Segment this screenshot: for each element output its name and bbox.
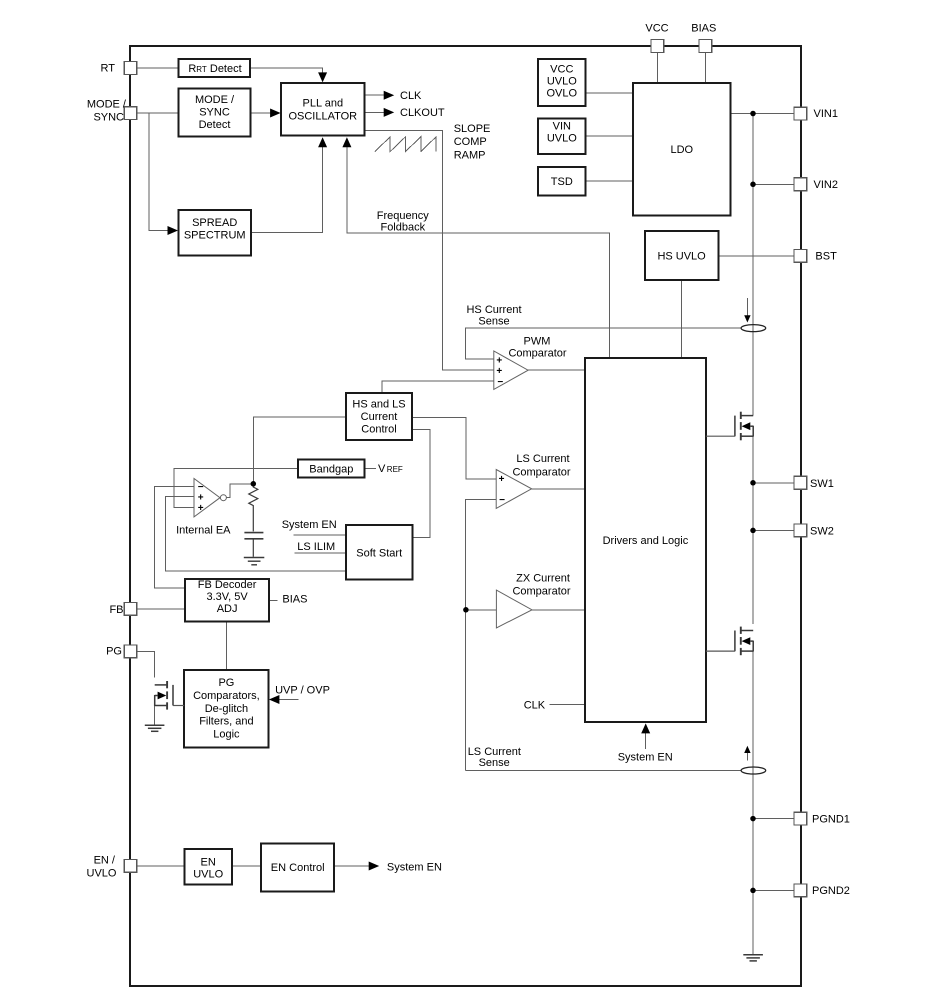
pin EN/UVLO: [87, 855, 137, 880]
svg-text:−: −: [198, 482, 204, 493]
node PGND1 junction: [750, 816, 756, 822]
svg-text:PWM: PWM: [524, 336, 551, 348]
wire compensation node to HS and LS Current Control: [253, 417, 346, 484]
svg-text:−: −: [499, 495, 505, 506]
svg-text:RT: RT: [101, 63, 116, 75]
svg-text:EN /: EN /: [94, 855, 116, 867]
wire BIAS pin to LDO: [704, 52, 706, 83]
svg-text:Logic: Logic: [213, 729, 240, 741]
wire bandgap to EA plus input: [174, 469, 298, 508]
wire CLK into Drivers and Logic: [550, 704, 585, 706]
svg-text:PGND2: PGND2: [812, 885, 850, 897]
node ZX comparator input junction: [463, 607, 469, 613]
svg-text:Control: Control: [361, 424, 396, 436]
svg-text:VIN2: VIN2: [814, 179, 838, 191]
transistor PG FET: [155, 681, 185, 710]
svg-text:RRT Detect: RRT Detect: [188, 63, 241, 75]
svg-text:UVP / OVP: UVP / OVP: [275, 685, 330, 697]
arrowhead CLK: [384, 91, 395, 100]
pin VIN1: [794, 107, 838, 120]
node SW2 junction: [750, 528, 756, 534]
svg-text:EN Control: EN Control: [271, 862, 325, 874]
svg-text:MODE /: MODE /: [195, 94, 235, 106]
svg-text:VCC: VCC: [550, 64, 573, 76]
svg-text:Foldback: Foldback: [380, 222, 425, 234]
wire ZX comparator input: [466, 609, 497, 611]
wire SW1 pin tap: [753, 482, 795, 484]
svg-text:Comparator: Comparator: [512, 467, 570, 479]
arrowhead HS current sense direction: [744, 315, 750, 322]
pin BIAS: [691, 23, 716, 53]
wire ZX comparator output: [532, 609, 585, 611]
block RRT Detect: [178, 59, 250, 77]
node LDO output at VIN1: [750, 111, 756, 117]
svg-text:+: +: [499, 474, 505, 485]
comparator ZX current: [496, 590, 532, 628]
node LS Current Sense label: [468, 746, 521, 769]
block Soft Start: [346, 525, 413, 579]
svg-text:FB: FB: [109, 604, 123, 616]
svg-text:VIN1: VIN1: [814, 108, 838, 120]
arrowhead LS current sense direction: [744, 746, 750, 753]
svg-text:PLL and: PLL and: [303, 98, 344, 110]
wire LS current sense direction arrow stem: [746, 753, 748, 761]
block HS UVLO: [645, 231, 719, 280]
node VIN2 junction: [750, 182, 756, 188]
svg-text:UVLO: UVLO: [547, 76, 577, 88]
svg-text:+: +: [198, 503, 204, 514]
svg-text:UVLO: UVLO: [193, 869, 223, 881]
wire EA minus input from FB Decoder: [155, 487, 194, 589]
svg-text:VIN: VIN: [553, 121, 571, 133]
wire System EN into Soft Start: [294, 534, 346, 536]
node compensation junction: [251, 481, 256, 487]
svg-text:BIAS: BIAS: [691, 23, 716, 35]
arrowhead UVP/OVP into PG Comparators: [269, 695, 280, 704]
svg-text:OVLO: OVLO: [547, 88, 578, 100]
node PGND2 junction: [750, 888, 756, 894]
svg-text:UVLO: UVLO: [547, 133, 577, 145]
svg-text:3.3V, 5V: 3.3V, 5V: [207, 591, 249, 603]
node SW1 junction: [750, 480, 756, 486]
svg-text:SYNC: SYNC: [199, 107, 230, 119]
block VCC UVLO OVLO: [538, 59, 586, 106]
wire LS FET source to ground rail: [752, 651, 754, 955]
svg-text:+: +: [496, 366, 502, 377]
svg-text:CLK: CLK: [400, 90, 422, 102]
wire CLKOUT output: [365, 111, 384, 113]
svg-text:ADJ: ADJ: [217, 603, 238, 615]
wire power rail VIN to HS FET: [752, 114, 754, 416]
svg-text:SLOPE: SLOPE: [454, 123, 491, 135]
wire MODE/SYNC Detect output to PLL: [251, 112, 272, 114]
outer IC boundary: [130, 46, 801, 986]
svg-text:Soft Start: Soft Start: [356, 548, 402, 560]
svg-text:OSCILLATOR: OSCILLATOR: [288, 111, 357, 123]
wire MODE/SYNC branch to Spread Spectrum: [149, 113, 170, 231]
wire HS UVLO to BST pin: [718, 255, 794, 257]
pin FB: [109, 603, 136, 616]
svg-text:SW2: SW2: [810, 526, 834, 538]
wire frequency foldback to Drivers and Logic: [347, 146, 610, 358]
svg-text:Drivers and Logic: Drivers and Logic: [603, 535, 689, 547]
wire System EN arrow into Drivers and Logic: [645, 731, 647, 749]
wire RT pin to RRT Detect: [137, 67, 179, 69]
wire LS current sense line: [466, 769, 741, 771]
block Drivers and Logic: [585, 358, 706, 722]
arrowhead CLKOUT: [384, 108, 395, 117]
svg-text:RAMP: RAMP: [454, 150, 486, 162]
wire internal EA output to compensation node: [227, 484, 254, 498]
wire Spread Spectrum output to PLL bottom: [251, 146, 323, 233]
wire PGND2 pin tap: [753, 889, 795, 891]
ground PG FET: [145, 725, 165, 731]
block FB Decoder: [185, 579, 269, 622]
svg-text:Detect: Detect: [199, 119, 231, 131]
svg-text:SPREAD: SPREAD: [192, 217, 237, 229]
svg-text:VCC: VCC: [645, 23, 668, 35]
svg-text:BST: BST: [815, 251, 837, 263]
LS current sense element: [741, 767, 766, 774]
wire FB pin to FB Decoder: [137, 608, 186, 610]
wire bandgap VREF stub: [365, 468, 377, 470]
svg-text:FB Decoder: FB Decoder: [198, 579, 257, 591]
svg-text:System EN: System EN: [387, 862, 442, 874]
svg-text:HS Current: HS Current: [466, 304, 521, 316]
block LDO: [633, 83, 731, 216]
svg-text:LDO: LDO: [670, 144, 693, 156]
wire HS current sense to PWM comparator: [466, 328, 741, 359]
node ZX Current Comparator label: [512, 573, 570, 598]
svg-text:SW1: SW1: [810, 478, 834, 490]
node SLOPE COMP RAMP label: [454, 123, 491, 162]
pin VCC: [645, 23, 668, 53]
svg-text:PGND1: PGND1: [812, 814, 850, 826]
pin SW1: [794, 476, 834, 489]
arrowhead System EN output: [369, 862, 380, 871]
wire EN/UVLO pin to EN UVLO: [137, 865, 185, 867]
svg-text:De-glitch: De-glitch: [205, 703, 248, 715]
svg-text:HS UVLO: HS UVLO: [657, 251, 706, 263]
wire PGND1 pin tap: [753, 818, 795, 820]
svg-text:LS Current: LS Current: [516, 453, 569, 465]
svg-text:Comparators,: Comparators,: [193, 690, 260, 702]
node HS Current Sense label: [466, 304, 521, 328]
pin RT: [101, 62, 137, 75]
block HS and LS Current Control: [346, 393, 412, 440]
svg-text:UVLO: UVLO: [87, 868, 117, 880]
wire UVP/OVP into PG Comparators: [276, 699, 298, 701]
svg-text:COMP: COMP: [454, 136, 487, 148]
svg-text:Filters, and: Filters, and: [199, 716, 253, 728]
svg-text:Bandgap: Bandgap: [309, 464, 353, 476]
svg-text:PG: PG: [106, 646, 122, 658]
svg-text:−: −: [497, 377, 503, 388]
svg-text:HS and LS: HS and LS: [352, 399, 405, 411]
wire EA plus input from Soft Start: [166, 497, 346, 571]
svg-text:Frequency: Frequency: [377, 210, 429, 222]
pin PGND1: [794, 812, 850, 825]
arrowhead into SPREAD SPECTRUM: [168, 226, 179, 235]
wire RRT Detect output to PLL top: [250, 68, 322, 73]
pin PG: [106, 645, 137, 658]
arrowhead System EN into Drivers and Logic: [641, 723, 650, 733]
wire VIN UVLO to LDO: [586, 135, 633, 137]
ground power rail: [743, 955, 763, 961]
wire HS UVLO to Drivers and Logic: [681, 280, 683, 358]
arrowhead frequency foldback into PLL bottom: [342, 137, 351, 147]
arrowhead RRT Detect into PLL: [318, 72, 327, 82]
resistor compensation: [249, 484, 258, 531]
svg-text:SYNC: SYNC: [93, 112, 124, 124]
pin SW2: [794, 524, 834, 538]
wire PWM comparator minus input from HS and LS Current Control: [382, 381, 494, 393]
svg-text:MODE /: MODE /: [87, 99, 127, 111]
svg-text:Current: Current: [361, 411, 398, 423]
svg-text:System EN: System EN: [618, 752, 673, 764]
wire VIN2 pin tap: [753, 183, 795, 185]
wire PG pin to PG FET drain: [137, 652, 155, 678]
block MODE/SYNC Detect: [178, 88, 250, 136]
node Frequency Foldback label: [377, 210, 429, 234]
wire LDO output to VIN1 pin: [731, 113, 795, 115]
svg-text:System EN: System EN: [282, 519, 337, 531]
block VIN UVLO: [538, 119, 586, 155]
transistor HS FET: [706, 412, 753, 441]
wire TSD to LDO: [586, 180, 633, 182]
wire FB Decoder BIAS stub: [269, 599, 277, 601]
block Bandgap: [298, 460, 365, 478]
capacitor compensation: [244, 533, 263, 557]
wire MODE/SYNC pin to MODE/SYNC Detect: [137, 112, 179, 114]
wire VCC UVLO OVLO to LDO: [586, 92, 633, 94]
wire EN UVLO to EN Control: [232, 865, 261, 867]
wire PWM comparator output: [528, 369, 585, 371]
wire HS and LS Current Control to LS comparator plus: [412, 418, 496, 480]
arrowhead Spread Spectrum into PLL bottom: [318, 137, 327, 147]
svg-text:BIAS: BIAS: [282, 594, 307, 606]
wire Soft Start to HS and LS Current Control: [412, 430, 430, 538]
node LS Current Comparator label: [512, 453, 570, 479]
wire VCC pin to LDO: [657, 52, 659, 83]
svg-text:TSD: TSD: [551, 176, 573, 188]
svg-text:ZX Current: ZX Current: [516, 573, 570, 585]
block PG Comparators De-glitch Filters and Logic: [184, 670, 268, 748]
op-amp internal EA: [194, 479, 226, 517]
wire FB Decoder to PG Comparators: [226, 622, 228, 670]
wire PG FET source to ground: [154, 706, 156, 726]
HS current sense element: [741, 325, 766, 332]
svg-text:Internal EA: Internal EA: [176, 525, 231, 537]
block SPREAD SPECTRUM: [178, 210, 251, 256]
wire switch node rail HS FET to LS FET: [752, 436, 754, 624]
block EN Control: [261, 844, 334, 892]
svg-text:CLK: CLK: [524, 700, 546, 712]
svg-text:Comparator: Comparator: [512, 586, 570, 598]
node VREF label: [378, 463, 403, 475]
svg-text:CLKOUT: CLKOUT: [400, 107, 445, 119]
transistor LS FET: [706, 627, 753, 656]
wire LS ILIM into Soft Start: [294, 552, 346, 554]
block EN UVLO: [184, 849, 232, 885]
svg-text:REF: REF: [387, 465, 403, 474]
svg-text:LS ILIM: LS ILIM: [297, 541, 335, 553]
node PWM Comparator label: [508, 336, 566, 360]
pin BST: [794, 250, 837, 263]
svg-text:Sense: Sense: [479, 757, 510, 769]
wire CLK output: [365, 94, 384, 96]
svg-text:+: +: [496, 355, 502, 366]
ground compensation: [244, 558, 264, 565]
wire slope comp ramp to PWM comparator: [365, 130, 494, 369]
arrowhead MODE/SYNC Detect into PLL: [270, 109, 281, 118]
wire EN Control to System EN: [334, 865, 369, 867]
comparator LS current: [496, 470, 531, 509]
svg-text:SPECTRUM: SPECTRUM: [184, 230, 246, 242]
wire LS comparator minus input from LS current sense: [466, 499, 497, 770]
pin VIN2: [794, 178, 838, 191]
pin MODE/SYNC: [87, 99, 137, 124]
pin PGND2: [794, 884, 850, 897]
wire LS comparator output: [532, 488, 585, 490]
block TSD: [538, 167, 586, 196]
svg-text:Comparator: Comparator: [508, 348, 566, 360]
block PLL and OSCILLATOR: [281, 83, 365, 136]
svg-text:PG: PG: [218, 677, 234, 689]
svg-text:V: V: [378, 463, 386, 475]
svg-text:EN: EN: [201, 857, 216, 869]
wire SW2 pin tap: [753, 529, 795, 531]
slope comp ramp waveform: [375, 137, 436, 152]
wire HS current sense direction arrow stem: [746, 298, 748, 316]
comparator PWM: [494, 351, 528, 389]
svg-text:Sense: Sense: [478, 316, 509, 328]
